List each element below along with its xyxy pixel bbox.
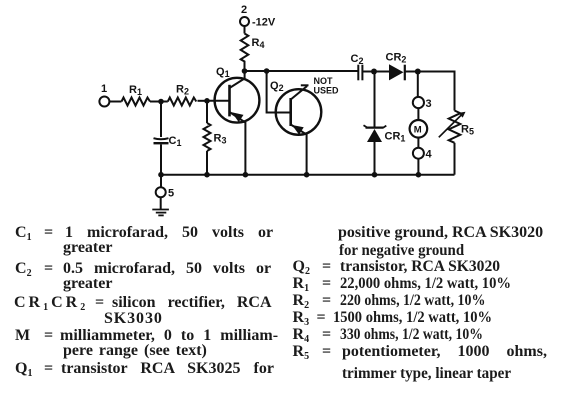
terminal 5 — [156, 175, 166, 209]
svg-text:R3: R3 — [214, 133, 227, 146]
node after C2 — [371, 69, 377, 75]
svg-text:2: 2 — [241, 4, 247, 16]
terminal 2 — [240, 17, 249, 26]
meter branch wire — [417, 72, 419, 97]
node R3 top — [204, 98, 210, 104]
svg-text:M: M — [414, 124, 422, 135]
svg-text:C1: C1 — [169, 135, 182, 148]
node at R4 bottom — [242, 68, 248, 74]
wire — [374, 71, 389, 73]
svg-text:R1: R1 — [129, 84, 142, 97]
capacitor C1 — [154, 104, 169, 175]
svg-text:1: 1 — [101, 83, 107, 95]
svg-text:C2: C2 — [351, 53, 364, 66]
wire — [417, 159, 419, 175]
wire — [109, 101, 121, 103]
svg-text:CR1: CR1 — [385, 131, 406, 144]
wire Q2 base drop — [267, 71, 291, 113]
parts list right column — [338, 225, 543, 241]
svg-text:R5: R5 — [461, 124, 474, 137]
resistor R3 — [204, 101, 211, 175]
node Q2 base tap — [264, 68, 270, 74]
resistor R2 — [168, 98, 197, 106]
wire — [417, 138, 419, 148]
svg-text:R4: R4 — [252, 37, 265, 50]
svg-text:R2: R2 — [176, 84, 189, 97]
svg-text:NOT: NOT — [314, 76, 334, 86]
transistor Q2 — [276, 85, 322, 174]
bottom rail — [161, 174, 455, 176]
svg-text:USED: USED — [314, 86, 340, 96]
node dots bottom rail — [158, 172, 164, 178]
wire top rail — [245, 70, 358, 72]
resistor R4 — [241, 34, 249, 72]
wire — [244, 26, 246, 34]
svg-text:3: 3 — [426, 98, 432, 110]
terminal 4 — [413, 148, 424, 159]
svg-text:Q1: Q1 — [216, 66, 230, 79]
diode CR1 — [364, 72, 387, 175]
svg-text:-12V: -12V — [252, 17, 276, 29]
wire — [150, 101, 168, 103]
capacitor C2 — [358, 65, 374, 81]
svg-text:4: 4 — [426, 149, 433, 161]
potentiometer R5 — [439, 111, 466, 175]
wire — [198, 100, 208, 102]
terminal 1 — [99, 97, 109, 107]
transistor Q1 — [207, 71, 259, 175]
parts list left column — [15, 225, 32, 241]
wire — [417, 108, 419, 120]
svg-text:CR2: CR2 — [386, 52, 407, 65]
wire to R5 branch — [418, 72, 455, 111]
svg-text:Q2: Q2 — [270, 80, 284, 93]
resistor R1 — [122, 98, 151, 106]
meter M — [410, 120, 428, 138]
terminal 3 — [413, 97, 424, 108]
diode CR2 — [389, 64, 418, 80]
node after CR2 — [415, 69, 421, 75]
node C1 top — [158, 99, 164, 105]
svg-text:5: 5 — [168, 188, 174, 200]
ground — [152, 210, 169, 216]
